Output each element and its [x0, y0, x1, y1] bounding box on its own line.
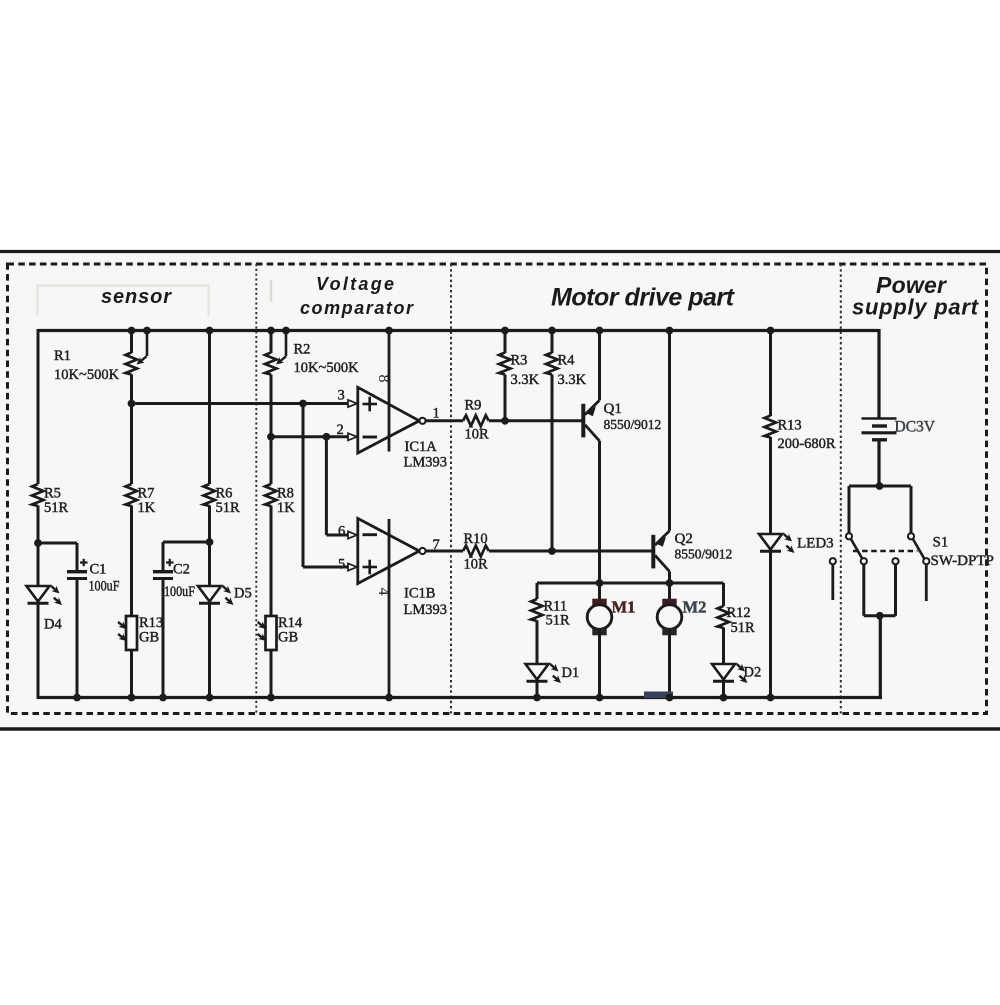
svg-text:D5: D5 [234, 586, 252, 602]
svg-text:IC1B: IC1B [404, 586, 435, 602]
svg-text:2: 2 [337, 422, 344, 438]
svg-text:DC3V: DC3V [895, 419, 936, 436]
svg-text:7: 7 [433, 537, 440, 553]
svg-text:R2: R2 [294, 342, 311, 358]
svg-text:4: 4 [375, 588, 392, 596]
svg-text:200-680R: 200-680R [778, 436, 836, 452]
svg-text:LM393: LM393 [404, 455, 448, 471]
svg-text:supply part: supply part [852, 295, 980, 320]
svg-text:R9: R9 [465, 398, 482, 414]
svg-text:R3: R3 [511, 353, 528, 369]
svg-text:1: 1 [433, 406, 440, 422]
svg-text:3.3K: 3.3K [511, 372, 540, 388]
svg-text:M2: M2 [683, 598, 707, 617]
svg-text:3.3K: 3.3K [558, 372, 587, 388]
svg-text:R13: R13 [778, 418, 802, 434]
svg-text:1K: 1K [277, 500, 295, 516]
svg-text:IC1A: IC1A [405, 439, 438, 455]
svg-text:D1: D1 [562, 665, 580, 681]
svg-text:8: 8 [375, 375, 392, 383]
svg-text:10K~500K: 10K~500K [294, 360, 360, 376]
svg-text:S1: S1 [933, 535, 949, 551]
svg-text:LM393: LM393 [404, 602, 448, 618]
svg-text:6: 6 [338, 524, 345, 540]
svg-text:Q1: Q1 [604, 401, 622, 417]
svg-text:10R: 10R [465, 427, 490, 443]
svg-text:comparator: comparator [300, 298, 414, 318]
svg-text:51R: 51R [546, 613, 571, 629]
svg-text:C1: C1 [90, 562, 107, 578]
svg-text:LED3: LED3 [797, 536, 834, 552]
svg-text:10R: 10R [464, 557, 489, 573]
svg-text:100uF: 100uF [164, 584, 195, 600]
svg-text:D2: D2 [744, 665, 762, 681]
svg-text:R1: R1 [54, 348, 71, 364]
svg-text:C2: C2 [173, 562, 190, 578]
svg-text:3: 3 [338, 388, 345, 404]
svg-text:Motor drive part: Motor drive part [551, 284, 736, 312]
svg-text:sensor: sensor [101, 286, 172, 308]
svg-text:8550/9012: 8550/9012 [604, 417, 662, 432]
svg-text:R4: R4 [558, 353, 576, 369]
svg-text:R12: R12 [727, 605, 751, 621]
svg-text:8550/9012: 8550/9012 [675, 547, 733, 562]
svg-text:Q2: Q2 [675, 531, 693, 547]
svg-text:D4: D4 [44, 617, 62, 633]
svg-text:51R: 51R [216, 500, 241, 516]
svg-text:5: 5 [338, 557, 345, 573]
svg-text:10K~500K: 10K~500K [54, 367, 120, 383]
svg-text:1K: 1K [138, 500, 156, 516]
svg-text:51R: 51R [731, 620, 756, 636]
svg-text:SW-DPTP: SW-DPTP [931, 553, 994, 569]
svg-text:51R: 51R [44, 500, 69, 516]
svg-text:GB: GB [278, 630, 298, 646]
svg-text:100uF: 100uF [89, 579, 120, 595]
svg-text:R10: R10 [464, 531, 488, 547]
svg-text:M1: M1 [612, 598, 636, 617]
svg-text:GB: GB [139, 630, 159, 646]
